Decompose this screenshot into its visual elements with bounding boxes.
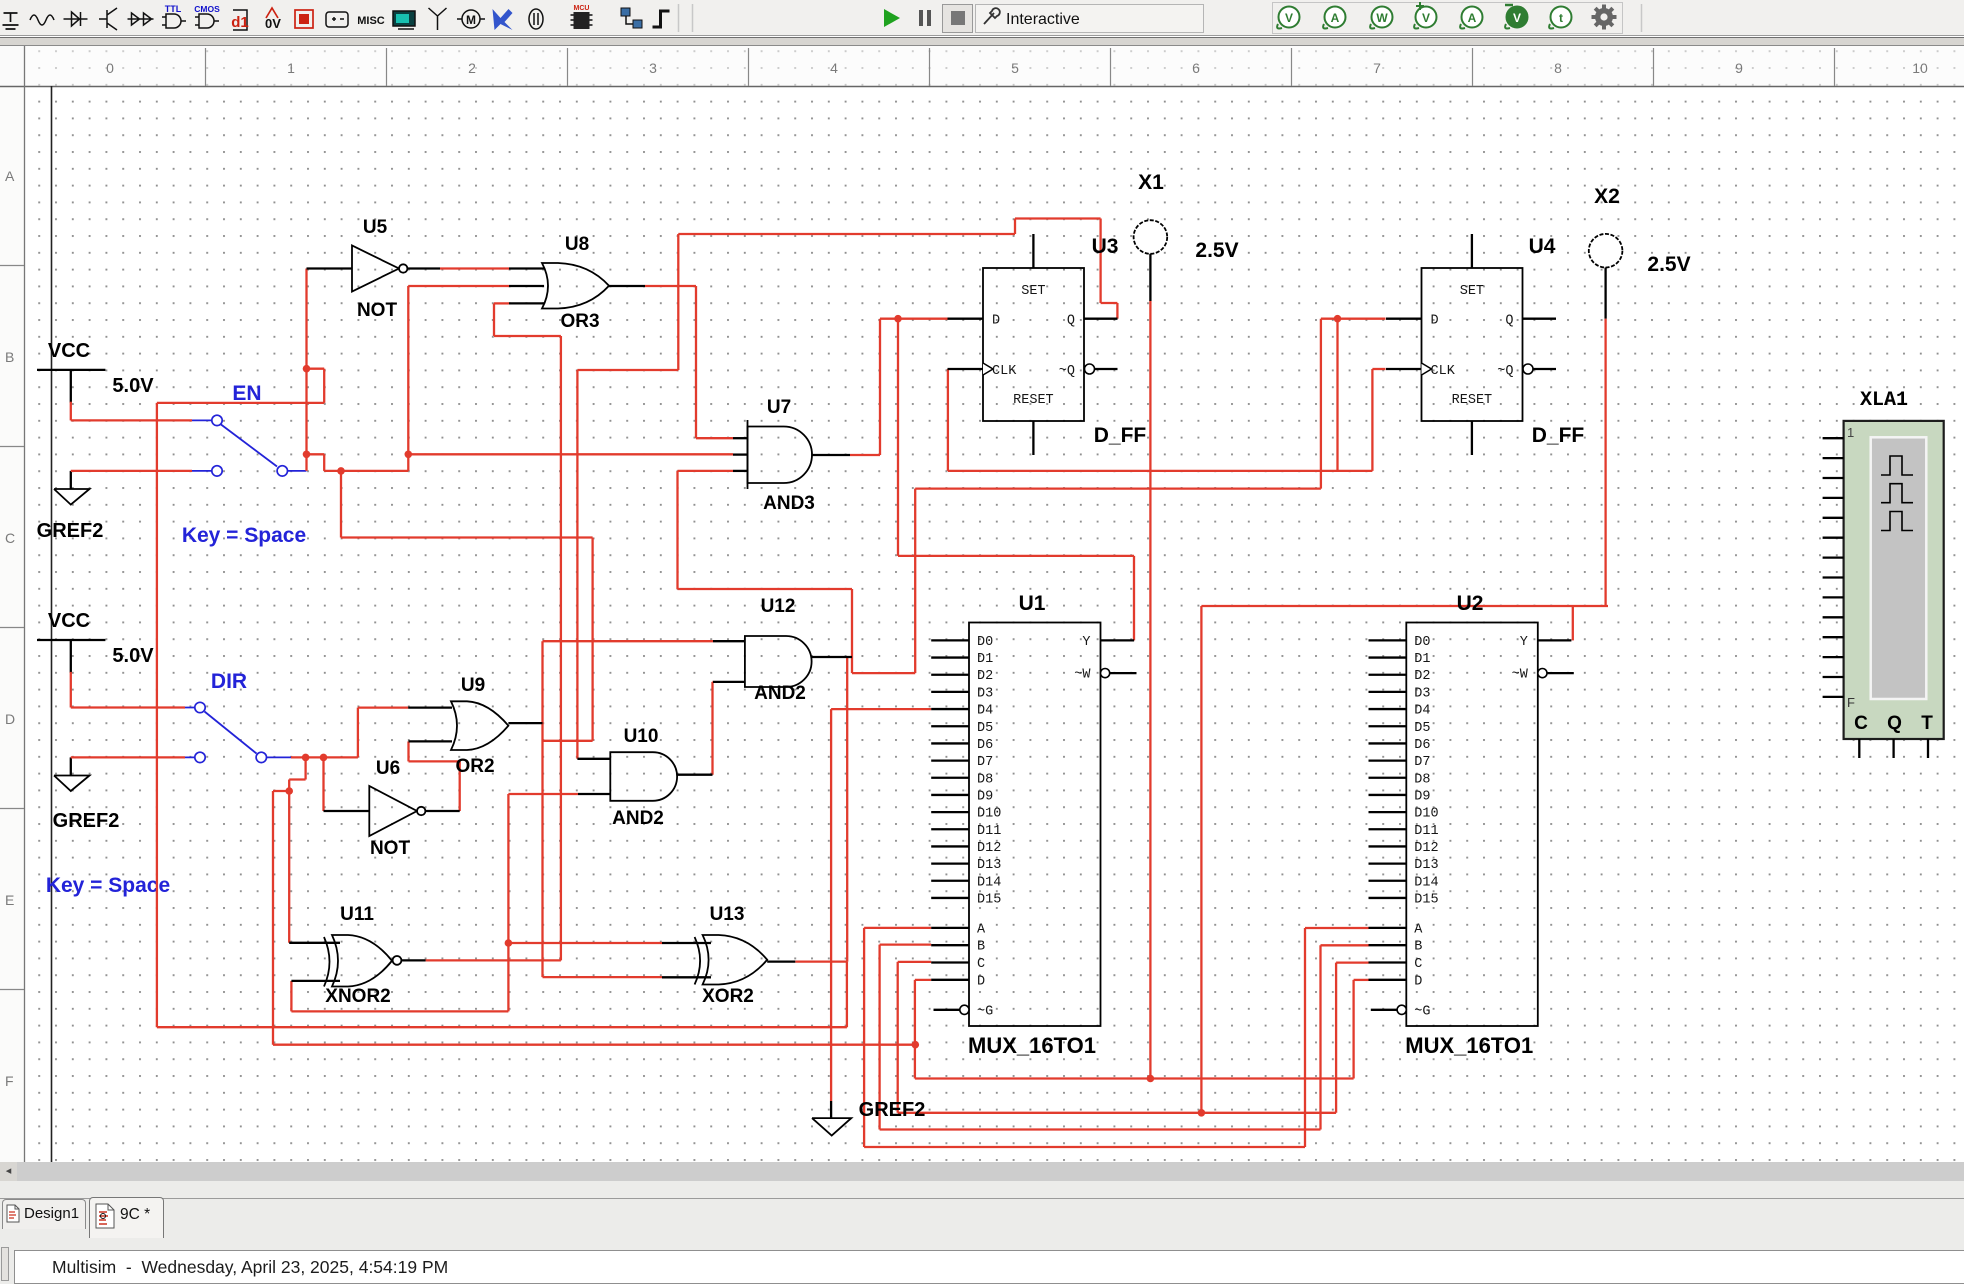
svg-text:T: T xyxy=(1921,713,1933,734)
wire XOR2.in2 feed xyxy=(543,976,663,978)
svg-text:D4: D4 xyxy=(977,704,993,719)
svg-text:D9: D9 xyxy=(1414,789,1430,804)
wire NOT U6 output loop xyxy=(459,761,461,811)
svg-text:D2: D2 xyxy=(1414,669,1430,684)
svg-text:Y: Y xyxy=(1520,635,1528,650)
pin D13 (U1) xyxy=(931,862,969,864)
svg-text:Q: Q xyxy=(1505,314,1513,329)
wire EN branch down x341 xyxy=(340,471,342,538)
node EN-A xyxy=(303,451,311,459)
svg-text:B: B xyxy=(977,940,985,955)
wire bottom D-select row xyxy=(915,1077,1354,1079)
svg-text:SET: SET xyxy=(1460,284,1484,299)
lamp X2 2.5V xyxy=(1589,234,1623,268)
svg-text:~Q: ~Q xyxy=(1059,364,1075,379)
svg-text:d1: d1 xyxy=(231,14,249,31)
svg-text:OR2: OR2 xyxy=(455,756,494,777)
svg-text:C: C xyxy=(1854,713,1868,734)
svg-text:MUX_16TO1: MUX_16TO1 xyxy=(968,1033,1096,1058)
svg-text:D13: D13 xyxy=(1414,858,1438,873)
wire AND3.out riser xyxy=(850,454,880,456)
wire U4.D horizontal xyxy=(915,487,1321,489)
pin D4 (U1) xyxy=(931,708,969,710)
svg-text:D7: D7 xyxy=(1414,755,1430,770)
instrument probe icons xyxy=(1277,7,1299,29)
pin D7 (U1) xyxy=(931,759,969,761)
switch J2 DIR xyxy=(185,708,291,758)
svg-text:NOT: NOT xyxy=(357,300,398,321)
and-gate U7 AND3 xyxy=(733,437,748,439)
wire EN long left xyxy=(157,402,324,404)
svg-text:GREF2: GREF2 xyxy=(53,810,120,832)
pin A (U2) xyxy=(1369,927,1407,929)
pin ~G (U2) xyxy=(1397,1005,1406,1014)
svg-text:A: A xyxy=(1331,11,1340,25)
svg-text:9: 9 xyxy=(1735,60,1743,76)
svg-text:OR3: OR3 xyxy=(560,311,599,332)
pin ~G (U1) xyxy=(960,1005,969,1014)
wire X1 column xyxy=(1149,301,1151,1079)
svg-text:D12: D12 xyxy=(977,841,1001,856)
svg-text:U1: U1 xyxy=(1019,592,1046,615)
wire U8.in2 xyxy=(408,285,509,287)
node DIR-3 xyxy=(285,787,293,795)
svg-text:U12: U12 xyxy=(761,596,796,617)
sheet border xyxy=(51,86,53,1162)
pin D (U2) xyxy=(1369,979,1407,981)
wire GREF2-bottom riser xyxy=(830,709,832,1101)
svg-text:~G: ~G xyxy=(977,1004,993,1019)
svg-text:B: B xyxy=(1414,940,1422,955)
pin D5 (U2) xyxy=(1369,725,1407,727)
waveform glyph 3 (XLA1) xyxy=(1881,512,1913,531)
svg-text:D: D xyxy=(5,711,15,727)
lamp X1 2.5V xyxy=(1134,220,1168,254)
svg-text:D13: D13 xyxy=(977,858,1001,873)
xnor-gate U11 XNOR2 xyxy=(289,942,340,944)
node EN-jog xyxy=(303,365,311,373)
svg-text:U13: U13 xyxy=(710,904,745,925)
pin D1 (U2) xyxy=(1369,656,1407,658)
svg-text:U5: U5 xyxy=(363,217,388,238)
pin D15 (U2) xyxy=(1369,897,1407,899)
or-gate U8 OR3 xyxy=(509,267,544,269)
svg-text:MCU: MCU xyxy=(574,5,590,12)
node DIR-2 xyxy=(320,754,328,762)
svg-text:E: E xyxy=(5,892,14,908)
pins XLA1 left xyxy=(1823,437,1844,439)
wire VCC2 lead xyxy=(70,672,72,708)
status bar xyxy=(0,1239,1964,1284)
waveform glyph 2 (XLA1) xyxy=(1881,484,1913,503)
simulation run button xyxy=(884,9,900,27)
svg-text:D1: D1 xyxy=(977,652,993,667)
wire EN left vertical x157 xyxy=(156,403,158,1027)
svg-text:M: M xyxy=(466,13,476,27)
svg-text:V: V xyxy=(1513,11,1521,25)
pin D (U1) xyxy=(931,979,969,981)
svg-text:MUX_16TO1: MUX_16TO1 xyxy=(1405,1033,1533,1058)
svg-text:~W: ~W xyxy=(1074,668,1091,683)
svg-text:A: A xyxy=(1414,922,1423,937)
svg-text:D0: D0 xyxy=(977,635,993,650)
svg-text:C: C xyxy=(1414,957,1422,972)
svg-text:U6: U6 xyxy=(376,758,400,779)
svg-text:2: 2 xyxy=(468,60,476,76)
svg-text:SET: SET xyxy=(1021,284,1045,299)
svg-text:Q: Q xyxy=(1067,314,1075,329)
svg-text:D: D xyxy=(1414,974,1422,989)
toolbar lower band xyxy=(0,37,1964,46)
svg-text:D_FF: D_FF xyxy=(1094,424,1147,447)
svg-text:GREF2: GREF2 xyxy=(859,1099,926,1121)
node XOR2.in1 xyxy=(505,939,513,947)
svg-text:D11: D11 xyxy=(1414,824,1438,839)
pin D0 (U1) xyxy=(931,639,969,641)
wire select A net xyxy=(864,927,931,929)
pause button xyxy=(921,10,929,26)
wire EN step xyxy=(307,453,325,455)
svg-text:NOT: NOT xyxy=(370,838,411,859)
pin ~W (U2) xyxy=(1538,669,1547,678)
svg-text:8: 8 xyxy=(1554,60,1562,76)
wire XOR2.out loop xyxy=(795,960,847,962)
node U3.D xyxy=(894,315,902,323)
svg-text:2.5V: 2.5V xyxy=(1647,253,1690,276)
pin D7 (U2) xyxy=(1369,759,1407,761)
svg-text:C: C xyxy=(977,957,985,972)
wire U6 input riser xyxy=(322,757,324,811)
pin C (U1) xyxy=(931,961,969,963)
svg-text:D: D xyxy=(1431,314,1439,329)
wire OR3.out down xyxy=(645,285,696,287)
svg-text:X1: X1 xyxy=(1138,171,1164,194)
and-gate U10 AND2 xyxy=(577,758,610,760)
switch J1 EN xyxy=(192,420,307,471)
pin D8 (U2) xyxy=(1369,777,1407,779)
pin D3 (U2) xyxy=(1369,691,1407,693)
svg-text:Y: Y xyxy=(1082,635,1090,650)
node U1.D-branch xyxy=(912,1041,920,1049)
pin Y (U2) xyxy=(1538,639,1572,641)
svg-text:D1: D1 xyxy=(1414,652,1430,667)
svg-text:D4: D4 xyxy=(1414,704,1430,719)
svg-text:D14: D14 xyxy=(1414,875,1438,890)
wire U3.CLK net xyxy=(947,369,949,471)
svg-text:D10: D10 xyxy=(977,807,1001,822)
pin D9 (U1) xyxy=(931,794,969,796)
pin B (U1) xyxy=(931,944,969,946)
pin Y (U1) xyxy=(1101,639,1135,641)
svg-text:D: D xyxy=(992,314,1000,329)
svg-text:CMOS: CMOS xyxy=(194,4,220,14)
pin D0 (U2) xyxy=(1369,639,1407,641)
svg-text:CLK: CLK xyxy=(1431,364,1456,379)
instrument XLA1 logic analyzer xyxy=(1844,421,1944,739)
pin D2 (U2) xyxy=(1369,674,1407,676)
flip-flop U4 D_FF xyxy=(1422,268,1523,421)
svg-text:GREF2: GREF2 xyxy=(37,520,104,542)
mux U1 MUX_16TO1 xyxy=(969,623,1101,1027)
wire U3 Q-SET loop xyxy=(1116,303,1118,319)
wire GREF2-1 to switch xyxy=(71,470,192,472)
svg-text:D6: D6 xyxy=(977,738,993,753)
pin D11 (U1) xyxy=(931,828,969,830)
svg-text:D3: D3 xyxy=(1414,686,1430,701)
svg-text:D12: D12 xyxy=(1414,841,1438,856)
pin D15 (U1) xyxy=(931,897,969,899)
pin D13 (U2) xyxy=(1369,862,1407,864)
pin D6 (U1) xyxy=(931,742,969,744)
pin D4 (U2) xyxy=(1369,708,1407,710)
svg-text:D6: D6 xyxy=(1414,738,1430,753)
pin D12 (U1) xyxy=(931,845,969,847)
pin C (U2) xyxy=(1369,961,1407,963)
svg-text:U3: U3 xyxy=(1092,235,1119,258)
svg-text:5.0V: 5.0V xyxy=(112,645,154,667)
or-gate U9 OR2 xyxy=(408,706,452,708)
wire DIR step down xyxy=(304,757,306,779)
wire U3.D to U1.Y xyxy=(897,319,899,556)
wire select D net xyxy=(915,979,931,981)
left ruler xyxy=(0,265,24,267)
wire XNOR2.in2 loop xyxy=(290,981,292,1012)
pin D5 (U1) xyxy=(931,725,969,727)
svg-text:RESET: RESET xyxy=(1013,393,1054,408)
svg-text:U7: U7 xyxy=(767,397,791,418)
node EN-C xyxy=(405,451,413,459)
wire XNOR2.out to OR3.in3 xyxy=(426,959,561,961)
wire U1.D4 feed xyxy=(831,708,931,710)
svg-text:D5: D5 xyxy=(1414,721,1430,736)
wire EN to OR3 vertical xyxy=(407,286,409,471)
wire U3.Q feedback top xyxy=(678,233,1015,235)
pin ~W (U1) xyxy=(1101,669,1110,678)
svg-text:XNOR2: XNOR2 xyxy=(325,986,390,1007)
svg-text:~Q: ~Q xyxy=(1497,364,1513,379)
svg-text:4: 4 xyxy=(830,60,838,76)
wire U1.D riser xyxy=(914,980,916,1079)
toolbar xyxy=(0,0,1964,36)
inverter U5 NOT xyxy=(307,267,353,269)
svg-text:D10: D10 xyxy=(1414,807,1438,822)
wire U12.out link xyxy=(851,589,853,673)
and-gate U12 AND2 xyxy=(713,640,745,642)
mux U2 MUX_16TO1 xyxy=(1406,623,1538,1027)
svg-text:1: 1 xyxy=(287,60,295,76)
svg-text:U10: U10 xyxy=(624,726,659,747)
wire select C net xyxy=(898,961,932,963)
wire OR3.in3 hook xyxy=(494,335,561,337)
svg-text:D_FF: D_FF xyxy=(1532,424,1585,447)
wire VCC1 lead xyxy=(70,402,72,421)
svg-text:A: A xyxy=(5,168,15,184)
svg-text:D3: D3 xyxy=(977,686,993,701)
node DIR-1 xyxy=(302,754,310,762)
svg-text:D9: D9 xyxy=(977,789,993,804)
svg-text:D14: D14 xyxy=(977,875,1001,890)
svg-text:D8: D8 xyxy=(977,772,993,787)
svg-text:1: 1 xyxy=(1847,425,1854,440)
top ruler xyxy=(0,46,1964,86)
waveform glyph 1 (XLA1) xyxy=(1881,456,1913,475)
wire U5.out to U8.in1 xyxy=(440,267,509,269)
wire U12.out-Xline xyxy=(846,657,848,962)
svg-text:0V: 0V xyxy=(265,16,281,31)
pin D11 (U2) xyxy=(1369,828,1407,830)
wire OR2.in1 riser xyxy=(357,708,359,758)
svg-text:A: A xyxy=(1468,11,1477,25)
pin D1 (U1) xyxy=(931,656,969,658)
svg-text:~W: ~W xyxy=(1512,668,1529,683)
svg-text:F: F xyxy=(1847,695,1855,710)
svg-text:VCC: VCC xyxy=(48,340,90,362)
svg-text:D0: D0 xyxy=(1414,635,1430,650)
svg-text:D8: D8 xyxy=(1414,772,1430,787)
wire U2.Y drop xyxy=(1572,606,1574,640)
pin D12 (U2) xyxy=(1369,845,1407,847)
wire cross y740 xyxy=(543,740,593,742)
pin D14 (U1) xyxy=(931,880,969,882)
node EN-B xyxy=(337,467,345,475)
svg-text:D2: D2 xyxy=(977,669,993,684)
pin B (U2) xyxy=(1369,944,1407,946)
svg-text:6: 6 xyxy=(1192,60,1200,76)
pin D10 (U1) xyxy=(931,811,969,813)
pin D14 (U2) xyxy=(1369,880,1407,882)
svg-text:X2: X2 xyxy=(1594,185,1620,208)
pin D6 (U2) xyxy=(1369,742,1407,744)
svg-text:RESET: RESET xyxy=(1452,393,1493,408)
pin A (U1) xyxy=(931,927,969,929)
power VCC V2 5.0V xyxy=(37,639,105,641)
svg-text:Q: Q xyxy=(1887,713,1902,734)
svg-text:2.5V: 2.5V xyxy=(1195,239,1238,262)
xor-gate U13 XOR2 xyxy=(662,942,711,944)
wire AND3.in3 feed xyxy=(678,470,734,472)
svg-text:EN: EN xyxy=(232,382,261,405)
svg-text:XLA1: XLA1 xyxy=(1860,389,1908,412)
svg-text:t: t xyxy=(1559,11,1563,25)
svg-text:D5: D5 xyxy=(977,721,993,736)
pin D8 (U1) xyxy=(931,777,969,779)
ground GREF2 top-left xyxy=(70,471,72,489)
svg-text:V: V xyxy=(1285,11,1293,25)
pin D2 (U1) xyxy=(931,674,969,676)
pin D3 (U1) xyxy=(931,691,969,693)
svg-text:Key = Space: Key = Space xyxy=(182,524,306,547)
wire U10.in2 feed xyxy=(508,793,578,795)
svg-text:VCC: VCC xyxy=(48,610,90,632)
svg-text:10: 10 xyxy=(1912,60,1928,76)
wire C-net riser x1201 xyxy=(1200,606,1202,1113)
svg-text:W: W xyxy=(1376,11,1388,25)
interactive dropdown xyxy=(976,5,1204,33)
wire EN vertical to U5 xyxy=(305,269,307,471)
svg-text:DIR: DIR xyxy=(211,670,247,693)
svg-text:0: 0 xyxy=(106,60,114,76)
wire XOR2.in1 feed xyxy=(508,942,662,944)
pin D10 (U2) xyxy=(1369,811,1407,813)
svg-text:3: 3 xyxy=(649,60,657,76)
svg-text:D7: D7 xyxy=(977,755,993,770)
svg-text:U4: U4 xyxy=(1529,235,1556,258)
power VCC V1 5.0V xyxy=(37,369,105,371)
svg-text:5.0V: 5.0V xyxy=(112,375,154,397)
svg-text:U9: U9 xyxy=(461,675,485,696)
svg-text:U2: U2 xyxy=(1457,592,1484,615)
svg-text:XOR2: XOR2 xyxy=(702,986,754,1007)
svg-text:U8: U8 xyxy=(565,234,589,255)
svg-text:D15: D15 xyxy=(977,892,1001,907)
svg-text:D15: D15 xyxy=(1414,892,1438,907)
svg-text:CLK: CLK xyxy=(992,364,1017,379)
svg-text:Interactive: Interactive xyxy=(1006,11,1080,28)
wire DIR row xyxy=(291,756,358,758)
svg-text:A: A xyxy=(977,922,986,937)
svg-text:C: C xyxy=(5,530,15,546)
svg-text:AND2: AND2 xyxy=(612,808,664,829)
svg-text:B: B xyxy=(5,349,14,365)
toolbar component icons xyxy=(3,13,19,29)
wire DIR long feedback xyxy=(273,790,289,792)
node U4.D xyxy=(1334,315,1342,323)
svg-text:F: F xyxy=(5,1073,14,1089)
svg-text:D11: D11 xyxy=(977,824,1001,839)
wire EN jog upper xyxy=(307,368,325,370)
node X1-bottom xyxy=(1147,1075,1155,1083)
svg-text:AND2: AND2 xyxy=(754,683,806,704)
svg-text:~G: ~G xyxy=(1414,1004,1430,1019)
wire U10.out to U12.in2 xyxy=(711,682,713,775)
svg-text:D: D xyxy=(977,974,985,989)
ground GREF2 bottom xyxy=(830,1101,832,1118)
pins XLA1 bottom xyxy=(1858,739,1860,758)
svg-text:MISC: MISC xyxy=(357,15,385,27)
svg-text:U11: U11 xyxy=(340,904,374,925)
svg-text:V: V xyxy=(1422,11,1430,25)
svg-text:7: 7 xyxy=(1373,60,1381,76)
pin D9 (U2) xyxy=(1369,794,1407,796)
wire GREF2-2 to switch xyxy=(71,756,185,758)
inverter U6 NOT xyxy=(324,810,370,812)
svg-text:5: 5 xyxy=(1011,60,1019,76)
wire X2 column xyxy=(1604,319,1606,606)
ground GREF2 mid-left xyxy=(70,757,72,775)
wire U12.in1 riser xyxy=(541,641,543,977)
flip-flop U3 D_FF xyxy=(983,268,1084,421)
stop button xyxy=(943,5,973,33)
wire select B net xyxy=(880,943,932,945)
wire AND3.in2 long xyxy=(408,453,733,455)
node C-net xyxy=(1198,1109,1206,1117)
tab bar xyxy=(0,1197,1964,1239)
horizontal scrollbar xyxy=(0,1162,1964,1181)
svg-text:AND3: AND3 xyxy=(763,493,815,514)
wire U4.D stub branch xyxy=(1336,319,1338,471)
svg-text:Key = Space: Key = Space xyxy=(46,874,170,897)
svg-text:TTL: TTL xyxy=(165,4,182,14)
